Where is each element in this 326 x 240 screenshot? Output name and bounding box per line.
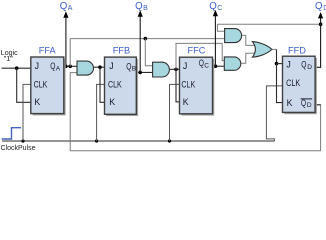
arrowhead QD [318, 12, 323, 18]
node: FFC J junction [174, 68, 178, 72]
wire: FFC J-K tie [176, 69, 180, 102]
node: QB junction [138, 71, 142, 75]
svg-text:CLK: CLK [181, 79, 195, 89]
wire: FFD J-K tie [277, 64, 284, 103]
and-gate G1 (QA and QDbar, drives FFB) [77, 61, 94, 75]
or-gate G5 (drives FFD J K) [252, 42, 272, 58]
wire: CLK feeder FFA [23, 84, 32, 141]
svg-text:A: A [56, 65, 61, 72]
svg-text:K: K [183, 97, 189, 107]
wire: G4 output to OR bottom input [240, 53, 256, 63]
svg-text:B: B [143, 5, 148, 12]
svg-text:K: K [287, 98, 293, 108]
wire: CLK feeder FFB [97, 84, 105, 141]
wire: QA output to AND gate G1 [63, 65, 77, 67]
and-gate G4 (FFC J node and QC) [224, 57, 241, 70]
node: clock junction FFC [168, 139, 171, 142]
flip-flop FFC shadow [181, 59, 214, 116]
wire: G3 output to OR top input [241, 35, 256, 45]
wire: clock rail [2, 140, 274, 142]
wire: FFC J node riser and rail to G4 top input [176, 43, 224, 69]
flip-flop FFD [283, 56, 316, 112]
svg-text:D: D [307, 64, 312, 71]
node: QD rail junction on arrow line [319, 22, 323, 26]
svg-text:J: J [35, 61, 39, 71]
arrowhead QC [213, 10, 218, 16]
wire: QD output to arrow [315, 17, 320, 67]
svg-text:D: D [307, 102, 312, 109]
svg-text:Q: Q [209, 1, 217, 12]
wire: QD rail drop to G3 top input [217, 24, 224, 31]
svg-text:FFC: FFC [188, 45, 206, 55]
svg-text:FFD: FFD [288, 45, 306, 55]
node: QA junction to rail [68, 65, 72, 69]
arrowhead QA [63, 11, 68, 17]
svg-text:"1": "1" [4, 54, 13, 63]
flip-flop FFB [105, 57, 137, 114]
arrowhead QB [138, 10, 143, 16]
wire: QDbar feedback bottom rail [70, 150, 320, 152]
node: clock junction FFA [21, 139, 24, 142]
svg-text:FFA: FFA [39, 45, 57, 55]
wire: QDbar output drop [315, 105, 320, 151]
wire: Logic 1 branch to FFA K [17, 68, 32, 102]
clock waveform symbol [2, 128, 22, 139]
flip-flop FFB shadow [106, 59, 138, 116]
node: QA junction to arrow [64, 65, 68, 69]
node: Logic1 junction [15, 66, 19, 70]
flip-flop FFD shadow [284, 58, 317, 114]
flip-flop FFA shadow [33, 59, 66, 116]
wire: OR output to FFD J [272, 48, 277, 50]
and-gate G2 (QA and QB, drives FFC) [153, 62, 170, 77]
wire: CLK feeder FFC [170, 84, 181, 141]
svg-text:K: K [34, 97, 40, 107]
svg-text:B: B [132, 66, 136, 73]
flip-flop FFC [180, 57, 213, 114]
svg-text:Q: Q [301, 98, 306, 108]
wire: G2 output to FFC J [169, 68, 180, 70]
node: FFB J junction [98, 65, 102, 69]
node: FFD J junction [275, 62, 279, 66]
wire: QC arrow line [214, 15, 216, 66]
wire: QA arrow line [65, 17, 67, 67]
wire: FFB J-K tie [100, 67, 105, 102]
svg-text:FFB: FFB [113, 45, 130, 55]
svg-text:Q: Q [315, 1, 323, 12]
svg-text:CLK: CLK [108, 79, 122, 89]
wire: QA top rail [70, 38, 224, 40]
svg-text:A: A [68, 5, 73, 12]
svg-text:CLK: CLK [34, 79, 48, 89]
svg-text:CLK: CLK [286, 78, 300, 88]
svg-text:Q: Q [135, 1, 143, 12]
wire: QC output to G4 bottom input [212, 65, 224, 67]
svg-text:Q: Q [301, 60, 306, 70]
svg-text:K: K [109, 97, 115, 107]
svg-text:J: J [183, 61, 187, 71]
node: QC junction [214, 64, 218, 68]
wire: QDbar feedback riser to G1 bottom input [70, 73, 77, 151]
node: QA rail junction to G2 [144, 37, 148, 41]
wire: FFD J stub [277, 63, 284, 65]
svg-text:ClockPulse: ClockPulse [1, 143, 36, 152]
wire: Logic 1 feed to FFA J [2, 67, 32, 69]
wire: QA rail drop to G2 top input [145, 39, 152, 66]
node: clock junction FFB [95, 139, 98, 142]
wire: QB arrow line [139, 16, 141, 73]
svg-text:Q: Q [60, 1, 68, 12]
svg-text:J: J [109, 61, 113, 71]
and-gate G3 (QD and QA) [225, 29, 242, 43]
wire: G1 output to FFB J [94, 66, 106, 68]
wire: QB output to G2 bottom input [136, 71, 153, 73]
wire: QD feedback top rail [217, 23, 320, 25]
wire: CLK feeder FFD [266, 86, 283, 141]
overline of QDbar [301, 98, 313, 100]
flip-flop FFA [31, 57, 64, 114]
svg-text:C: C [204, 62, 209, 69]
wire: QDbar output stub [315, 104, 320, 106]
svg-text:J: J [286, 60, 290, 70]
svg-text:C: C [217, 5, 222, 12]
wire: QA riser to top rail [69, 39, 71, 67]
